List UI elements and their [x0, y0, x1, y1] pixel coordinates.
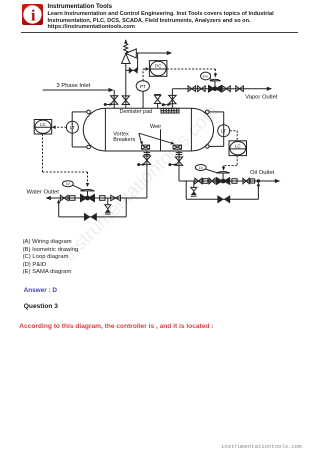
- svg-text:LV: LV: [66, 182, 71, 186]
- svg-text:LC: LC: [235, 144, 242, 149]
- question 3 heading: [24, 303, 58, 310]
- vapor block valve 3: [223, 86, 231, 92]
- PC to valve signal: [167, 69, 217, 78]
- LT right to LC right signal: [230, 131, 238, 141]
- svg-text:LV: LV: [199, 166, 204, 170]
- water tap dot and arrow: [137, 163, 146, 166]
- option B: [23, 247, 79, 253]
- svg-text:Demister pad: Demister pad: [120, 109, 153, 115]
- option E: [23, 269, 72, 275]
- question text: [19, 323, 213, 330]
- vapor riser: [171, 89, 173, 109]
- oil flange spool 2: [232, 179, 237, 184]
- oil flange spool 1: [203, 179, 208, 184]
- header rule: [21, 32, 298, 33]
- vapor riser valve: [169, 95, 176, 103]
- vessel right seam: [190, 108, 192, 151]
- arrow onto water valve: [86, 183, 89, 187]
- vapor block valve 4: [236, 86, 244, 92]
- svg-text:Oil Outlet: Oil Outlet: [250, 170, 275, 176]
- header url: [48, 24, 135, 30]
- svg-text:LT: LT: [221, 129, 226, 134]
- vapor control valve PV: [208, 79, 222, 93]
- left level bridle: [72, 112, 87, 147]
- right level bridle: [209, 112, 224, 146]
- oil bypass valve (closed): [217, 195, 230, 203]
- LT to LC signal left: [52, 125, 67, 129]
- weir plate: [160, 129, 162, 151]
- LC right to oil valve signal: [222, 156, 237, 171]
- PSV bypass line: [126, 53, 138, 70]
- oil outlet line: [179, 179, 280, 183]
- water drain valve: [105, 198, 111, 214]
- oil nozzle pipe: [176, 151, 183, 181]
- vortex breaker left: [142, 145, 150, 149]
- watermark: [59, 101, 223, 265]
- water control valve LV: [80, 189, 95, 202]
- PSV inlet leg: [125, 64, 127, 109]
- vapor block valve 1: [188, 86, 196, 92]
- PT to PC signal: [143, 69, 146, 81]
- vapor block valve 2: [198, 86, 206, 92]
- left bridle top nozzle: [87, 110, 91, 114]
- controller LC right: [229, 141, 247, 156]
- oil flange spool 3: [250, 179, 255, 183]
- transmitter LT right: [218, 125, 230, 137]
- transmitter LT left: [66, 121, 78, 133]
- 3 phase inlet line: [43, 88, 115, 108]
- vortex pointer right: [139, 133, 175, 144]
- vortex breaker right: [173, 145, 181, 149]
- oil nozzle valve: [175, 157, 182, 165]
- positioner PY: [201, 72, 214, 82]
- inlet tap dot and arrow: [104, 103, 113, 106]
- svg-text:PC: PC: [155, 64, 162, 69]
- answer: [24, 287, 57, 294]
- water block valve 1: [60, 195, 68, 201]
- oil drain valve: [191, 181, 197, 196]
- footer site: [221, 443, 302, 450]
- header description line 2: [48, 18, 251, 24]
- svg-text:Weir: Weir: [150, 124, 161, 130]
- vessel V-1 shell: [83, 108, 213, 151]
- header title: [48, 3, 113, 10]
- arrow into PC: [145, 67, 149, 71]
- demister pad: [161, 108, 179, 113]
- inlet block valve: [111, 96, 118, 105]
- LC left to water valve signal: [43, 134, 88, 184]
- water block valve 2: [111, 195, 121, 201]
- vessel left seam: [104, 108, 106, 151]
- svg-text:Water Outlet: Water Outlet: [27, 190, 60, 196]
- PSV bypass valve (closed): [129, 67, 138, 74]
- svg-text:3 Phase Inlet: 3 Phase Inlet: [57, 83, 91, 89]
- water bypass line: [57, 198, 126, 217]
- option D: [23, 262, 47, 268]
- svg-text:Vapor Outlet: Vapor Outlet: [245, 94, 278, 100]
- water outlet line: [46, 196, 147, 200]
- PSV vent line: [136, 51, 172, 55]
- header description line 1: [48, 11, 274, 17]
- svg-text:PT: PT: [140, 84, 146, 89]
- water flange spool 2: [100, 196, 105, 201]
- right bridle bottom nozzle: [206, 145, 210, 149]
- svg-text:Breakers: Breakers: [113, 137, 135, 143]
- positioner LV bubble oil: [195, 165, 217, 173]
- oil block valve 3: [243, 178, 249, 184]
- left bridle bottom nozzle: [87, 145, 91, 149]
- controller PC: [149, 61, 167, 77]
- oil block valve 2: [209, 178, 215, 184]
- water flange spool 1: [69, 196, 75, 201]
- label Vortex Breakers: [113, 131, 135, 143]
- positioner LV bubble: [63, 181, 85, 191]
- oil block valve 1: [195, 178, 202, 184]
- water nozzle pipe: [144, 151, 151, 198]
- vortex pointer left: [139, 133, 143, 145]
- option A: [23, 239, 72, 245]
- svg-text:LT: LT: [70, 125, 75, 130]
- oil tap dot and arrow: [168, 163, 178, 166]
- transmitter PT: [136, 81, 149, 91]
- header logo icon: [22, 4, 43, 25]
- relief valve PSV: [122, 39, 137, 63]
- svg-text:PY: PY: [203, 75, 209, 79]
- vapor tap dot and arrow: [162, 103, 171, 106]
- option C: [23, 254, 69, 260]
- water nozzle valve: [143, 156, 150, 164]
- vapor outlet line: [172, 87, 272, 91]
- PSV inlet valve: [122, 96, 129, 105]
- controller LC left: [34, 120, 52, 135]
- PT tap line: [142, 91, 144, 108]
- oil control valve LV: [216, 172, 230, 186]
- oil bypass line: [186, 179, 260, 199]
- right bridle top nozzle: [206, 110, 210, 114]
- capped vent valve on vessel top: [154, 95, 160, 109]
- water bypass valve (closed): [84, 213, 97, 221]
- svg-text:LC: LC: [40, 122, 47, 127]
